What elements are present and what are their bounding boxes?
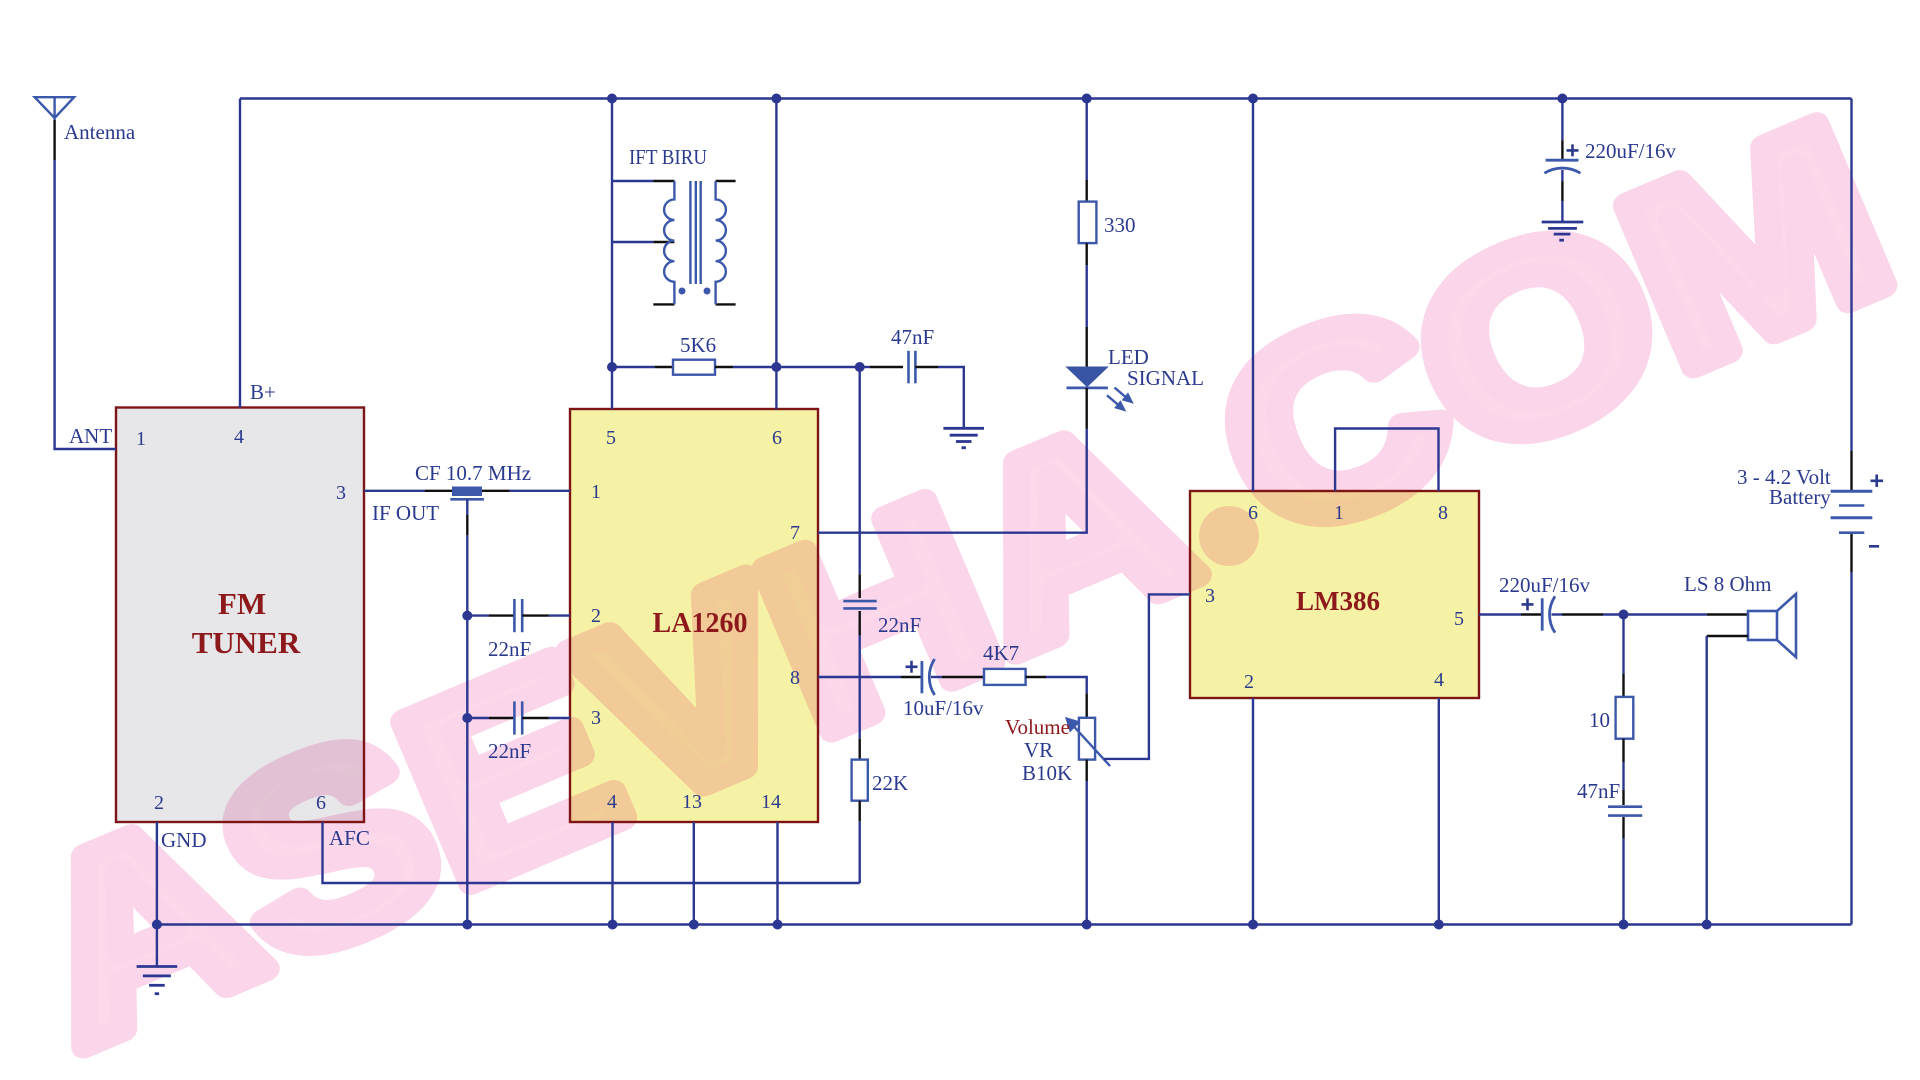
C1 right lead black (522, 614, 549, 616)
right battery bus wire upper (1850, 99, 1852, 452)
svg-text:5K6: 5K6 (680, 333, 716, 357)
wire dot to C1 (467, 614, 489, 616)
svg-text:B+: B+ (250, 380, 276, 404)
svg-text:22K: 22K (872, 771, 908, 795)
potentiometer VR1 B10K body (1079, 718, 1095, 760)
wire GND drop from FM tuner pin 2 (156, 822, 158, 925)
node junction speaker branch (1619, 610, 1629, 620)
wire pot bottom to bus (1085, 781, 1087, 925)
svg-text:B10K: B10K (1022, 761, 1072, 785)
svg-text:2: 2 (1244, 671, 1254, 693)
transformer T1 upper left lead black (653, 180, 674, 182)
antenna AN1 (35, 97, 74, 120)
C6 lower lead black (1561, 181, 1563, 201)
node junction riser/5K6 left (607, 362, 617, 372)
svg-text:6: 6 (1248, 502, 1258, 524)
node junction riser/5K6 right (771, 362, 781, 372)
wire AFC drop from FM tuner pin 6 (323, 822, 860, 883)
wire C6 to ground (1561, 201, 1563, 222)
resistor R5 10 (1616, 697, 1634, 739)
C7 right lead black (1562, 613, 1603, 615)
capacitor C5 10uF left lead black (901, 676, 921, 678)
speaker bottom lead black (1707, 635, 1748, 637)
ground symbol bottom left (137, 967, 178, 994)
ceramic filter CF 10.7 MHz (450, 487, 484, 500)
svg-text:3: 3 (1205, 585, 1215, 607)
svg-text:1: 1 (136, 428, 146, 450)
LA1260 IC border U2 (570, 409, 818, 822)
capacitor C1 22nF (514, 599, 522, 632)
wire FM pin3 to CF (364, 490, 425, 492)
capacitor C2 22nF left lead black (489, 717, 514, 719)
capacitor C8 bottom lead black (1622, 817, 1624, 838)
LM386 IC fill (1190, 491, 1479, 698)
svg-text:LS 8 Ohm: LS 8 Ohm (1684, 572, 1772, 596)
FM tuner block fill (116, 408, 364, 823)
resistor R1 5K6 left lead black (655, 366, 673, 368)
svg-text:4: 4 (1434, 669, 1444, 691)
svg-text:LA1260: LA1260 (653, 608, 748, 639)
capacitor C3 47nF left lead black (870, 366, 903, 368)
wire C1 to LA1260 pin 2 (549, 614, 570, 616)
capacitor C1 22nF left lead black (489, 614, 514, 616)
resistor R4 4K7 (984, 669, 1026, 685)
wire CF drop down (466, 499, 468, 515)
svg-text:10uF/16v: 10uF/16v (903, 696, 984, 720)
svg-text:6: 6 (772, 427, 782, 449)
svg-text:4K7: 4K7 (983, 641, 1019, 665)
capacitor C7 220uF left lead black (1521, 613, 1541, 615)
node junction bus dots (152, 920, 1712, 930)
wire R5 to C8 (1622, 762, 1624, 790)
C6 plus sign (1567, 144, 1579, 156)
resistor R1 5K6 (673, 360, 715, 375)
transformer phase dot left (679, 288, 686, 295)
battery BT1 (1831, 491, 1873, 533)
svg-text:2: 2 (591, 605, 601, 627)
wire LED to LA1260 pin 7 (818, 429, 1087, 533)
wire 5K6 left (612, 366, 655, 368)
svg-text:1: 1 (591, 481, 601, 503)
wire C4 to R3 (859, 636, 861, 739)
capacitor C8 top lead black (1622, 790, 1624, 805)
transformer phase dot right (704, 288, 711, 295)
FM tuner block border U1 (116, 408, 364, 823)
LED D1 anode lead black (1085, 327, 1087, 367)
svg-text:4: 4 (607, 791, 617, 813)
svg-text:7: 7 (790, 522, 800, 544)
node junction top bus / LM386 pin6 riser (1248, 94, 1258, 104)
wire R2 to LED (1085, 265, 1087, 327)
transformer T1 tap lead black (653, 241, 674, 243)
svg-text:47nF: 47nF (1577, 779, 1620, 803)
potentiometer VR1 wiper arrow (1067, 719, 1110, 766)
antenna lead black (53, 120, 55, 160)
top supply bus wire (240, 97, 1852, 99)
antenna wire to FM tuner pin 1 (55, 160, 116, 449)
capacitor C8 47nF (1608, 807, 1642, 816)
wire CF drop to bottom bus (466, 535, 468, 924)
svg-text:FM: FM (218, 586, 266, 621)
battery top lead (1850, 451, 1852, 490)
wire C8 to bus (1622, 838, 1624, 925)
node junction 5K6/47nF (855, 362, 865, 372)
wire ground stub below bus (156, 925, 158, 967)
svg-text:Battery: Battery (1769, 485, 1831, 509)
wire C2 to LA1260 pin 3 (549, 717, 570, 719)
node junction top bus / pin6 riser (771, 94, 781, 104)
battery plus sign (1871, 475, 1884, 488)
svg-text:22nF: 22nF (488, 739, 531, 763)
C5 plus sign (906, 661, 918, 673)
capacitor C4 bottom lead black (859, 611, 861, 636)
svg-text:1: 1 (1334, 502, 1344, 524)
wire 5K6 right (733, 366, 860, 368)
svg-text:220uF/16v: 220uF/16v (1585, 139, 1677, 163)
CF left lead black (425, 490, 452, 492)
wire LA1260 pin 8 (818, 676, 901, 678)
svg-text:13: 13 (682, 791, 702, 813)
svg-text:5: 5 (606, 427, 616, 449)
svg-text:IF OUT: IF OUT (372, 501, 439, 525)
pot VR1 bottom lead black (1085, 760, 1087, 781)
bottom ground bus wire (157, 923, 1852, 925)
resistor R3 22K (852, 760, 868, 801)
resistor R2 330 (1079, 202, 1097, 244)
svg-text:14: 14 (761, 791, 781, 813)
capacitor C6 220uF/16v polarized (1544, 160, 1580, 173)
svg-text:VR: VR (1024, 738, 1053, 762)
svg-text:AFC: AFC (329, 826, 370, 850)
wire wiper to LM386 pin 3 (1104, 594, 1190, 759)
wire speaker return to bus (1705, 636, 1707, 925)
svg-text:22nF: 22nF (488, 637, 531, 661)
wire transformer tap branch (612, 241, 653, 243)
wire C5 to R4 stub (931, 676, 942, 678)
transformer T1 bottom right lead black (716, 303, 736, 305)
svg-text:47nF: 47nF (891, 325, 934, 349)
wire riser bus to transformer and LA1260 pin 5 (611, 99, 613, 410)
resistor R4 4K7 left lead black (942, 676, 984, 678)
speaker LS1 8 Ohm (1748, 594, 1796, 657)
wire B+ riser from FM tuner pin 4 to top bus (239, 99, 241, 408)
node junction CF/C1 (462, 611, 472, 621)
capacitor C4 22nF (843, 601, 876, 608)
svg-text:220uF/16v: 220uF/16v (1499, 573, 1591, 597)
wire C7 stub (1552, 613, 1563, 615)
resistor R3 22K top lead black (859, 739, 861, 760)
svg-text:Antenna: Antenna (64, 120, 136, 144)
svg-text:SIGNAL: SIGNAL (1127, 366, 1204, 390)
transformer T1 upper right lead black (716, 180, 736, 182)
wire junction down to R5 (1622, 615, 1624, 675)
transformer T1 bottom left lead black (653, 303, 674, 305)
capacitor C6 top lead black (1561, 140, 1563, 159)
resistor R5 10 top lead black (1622, 674, 1624, 697)
resistor R3 22K bottom lead black (859, 801, 861, 821)
resistor R5 bottom lead black (1622, 739, 1624, 762)
LED D1 cathode lead black (1085, 388, 1087, 429)
ground symbol at C6 (1542, 222, 1584, 240)
capacitor C3 47nF (909, 351, 916, 384)
resistor R2 330 bottom lead black (1085, 243, 1087, 265)
wire dot to C3 (860, 366, 870, 368)
wire C7 to speaker junction (1603, 613, 1707, 615)
wire LM386 pin 4 drop (1438, 698, 1440, 925)
svg-text:5: 5 (1454, 608, 1464, 630)
wire C3 to ground (938, 367, 964, 428)
wire bus to R2 330 (1085, 99, 1087, 181)
node junction top bus / transformer riser (607, 94, 617, 104)
svg-text:22nF: 22nF (878, 613, 921, 637)
capacitor C3 right lead black (915, 366, 938, 368)
LM386 IC border U3 (1190, 491, 1479, 698)
wire LM386 pin 5 out (1479, 613, 1521, 615)
CF drop lead black (466, 515, 468, 535)
wire bus to C6 (1561, 99, 1563, 141)
svg-text:CF 10.7 MHz: CF 10.7 MHz (415, 461, 531, 485)
wire LM386 pin1 to pin8 gain loop (1335, 429, 1438, 492)
svg-text:330: 330 (1104, 213, 1136, 237)
svg-text:3: 3 (591, 707, 601, 729)
resistor R1 5K6 right lead black (715, 366, 733, 368)
CF right lead black (482, 490, 510, 492)
transformer T1 IFT BIRU windings (664, 181, 726, 304)
svg-text:2: 2 (154, 792, 164, 814)
svg-text:TUNER: TUNER (192, 625, 301, 660)
wire riser bus to LA1260 pin 6 (775, 99, 777, 410)
node junction CF/C2 (462, 713, 472, 723)
capacitor C6 bottom lead (1561, 170, 1563, 181)
capacitor C4 22nF top lead black (859, 574, 861, 598)
LED D1 SIGNAL (1065, 367, 1108, 388)
wire LA1260 pin 13 drop (693, 822, 695, 925)
wire CF to LA1260 pin 1 (510, 490, 570, 492)
svg-text:4: 4 (234, 426, 244, 448)
wire LA1260 pin 14 drop (776, 822, 778, 925)
capacitor C7 220uF/16v polarized (1542, 596, 1555, 632)
capacitor C2 22nF (514, 701, 522, 734)
wire R4 to volume pot (1046, 677, 1087, 693)
battery minus sign (1869, 545, 1879, 548)
pot VR1 top lead black (1085, 693, 1087, 718)
resistor R2 330 top lead black (1085, 180, 1087, 202)
speaker top lead black (1707, 613, 1748, 615)
wire junction 5K6 down to C4 (859, 367, 861, 574)
wire transformer top branch (612, 180, 653, 182)
svg-text:Volume: Volume (1005, 715, 1070, 739)
LA1260 IC fill (570, 409, 818, 822)
C7 plus sign (1522, 598, 1534, 610)
svg-text:ANT: ANT (69, 424, 112, 448)
svg-text:10: 10 (1589, 708, 1610, 732)
svg-text:LM386: LM386 (1296, 586, 1380, 616)
svg-text:IFT BIRU: IFT BIRU (629, 145, 707, 169)
svg-text:3: 3 (336, 482, 346, 504)
LED D1 emission arrows (1107, 388, 1132, 410)
C2 right lead black (522, 717, 549, 719)
resistor R4 4K7 right lead black (1026, 676, 1046, 678)
wire LM386 pin 2 drop (1252, 698, 1254, 925)
svg-text:GND: GND (161, 828, 207, 852)
wire R3 to AFC line (859, 821, 861, 883)
node junction top bus / C6 (1557, 94, 1567, 104)
right battery bus wire lower (1850, 572, 1852, 925)
ground symbol at C3 (943, 428, 984, 447)
battery bottom lead (1850, 534, 1852, 572)
svg-text:6: 6 (316, 792, 326, 814)
wire dot to C2 (467, 717, 489, 719)
wire LA1260 pin 4 drop (611, 822, 613, 925)
capacitor C5 10uF/16v polarized (922, 659, 935, 695)
node junction top bus / 330 riser (1082, 94, 1092, 104)
svg-text:8: 8 (790, 667, 800, 689)
wire bus to LM386 pin 6 (1252, 99, 1254, 492)
svg-text:8: 8 (1438, 502, 1448, 524)
